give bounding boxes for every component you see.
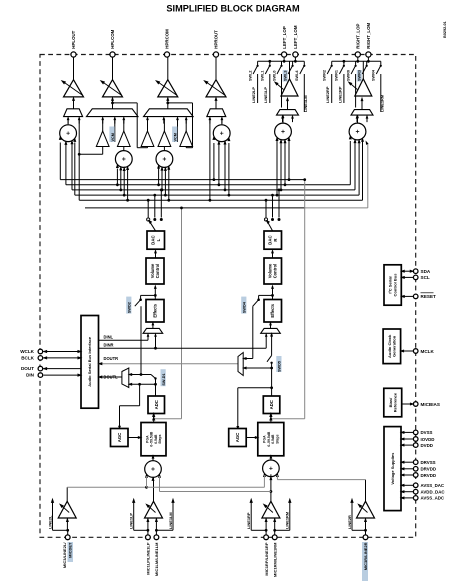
svg-text:Reference: Reference <box>393 392 398 412</box>
svg-text:RIGHT_LOM: RIGHT_LOM <box>366 23 371 49</box>
svg-text:SWR4: SWR4 <box>372 69 376 81</box>
arrow effects R to VC R <box>272 288 274 300</box>
mux under x73.1 <box>64 109 83 117</box>
mux under x216.3 <box>207 109 226 117</box>
AGC R <box>229 429 247 447</box>
record route A <box>67 486 146 488</box>
DOUTL mux <box>122 368 129 388</box>
arrow VC R to DAC R <box>272 252 274 258</box>
arrow AGC R to PGA R <box>246 437 258 439</box>
mixer LO-R <box>349 123 366 140</box>
svg-text:SDA: SDA <box>421 269 431 274</box>
PGA R <box>258 423 284 456</box>
svg-text:RIGHT_LOP: RIGHT_LOP <box>356 24 361 49</box>
svg-text:BCLK: BCLK <box>21 356 34 361</box>
svg-text:Effects: Effects <box>152 303 157 317</box>
svg-text:VCM: VCM <box>174 133 178 141</box>
svg-text:LINE1RP: LINE1RP <box>246 512 251 529</box>
svg-text:SWL0: SWL0 <box>272 70 276 81</box>
effects R <box>264 300 282 323</box>
label MIC3R pin <box>362 542 368 581</box>
svg-text:DOUTR: DOUTR <box>104 356 119 361</box>
VCM net 2 <box>177 119 179 142</box>
pin HPLCOM <box>110 52 115 57</box>
buffer tri1 feeder <box>102 147 104 155</box>
svg-text:SW-D1: SW-D1 <box>162 373 166 385</box>
svg-text:DINL: DINL <box>104 335 114 340</box>
hp amp U-HPR-COM <box>158 80 178 97</box>
svg-text:WCLK: WCLK <box>20 349 34 354</box>
pin LEFT_LOP <box>282 52 287 57</box>
mux under effects L arrows <box>147 333 150 337</box>
right line-out amp <box>355 79 372 96</box>
record route C <box>277 479 365 481</box>
svg-text:DVSS: DVSS <box>421 430 433 435</box>
pin IOVDD <box>413 437 418 442</box>
input amp MIC3L <box>58 501 76 518</box>
mux under x168.3 <box>144 109 194 117</box>
left line-out mux <box>277 110 299 116</box>
switch SWR3 label <box>357 70 362 82</box>
volume control R <box>264 258 282 284</box>
svg-text:DVDD: DVDD <box>421 443 433 448</box>
mux under effects R <box>261 328 281 333</box>
record mixer L in arrows <box>145 473 148 478</box>
mixer L2 out <box>123 147 125 151</box>
svg-text:MICDET: MICDET <box>68 542 73 558</box>
I2C box <box>384 265 401 305</box>
svg-text:AVSS_DAC: AVSS_DAC <box>421 483 445 488</box>
svg-text:Generation: Generation <box>392 335 397 357</box>
svg-text:SWL1: SWL1 <box>261 70 265 81</box>
mixer R1 in arrows <box>212 135 215 140</box>
arrow VC L to DAC L <box>155 252 157 258</box>
svg-text:LINE1LM: LINE1LM <box>303 95 308 112</box>
svg-text:LINE2LP: LINE2LP <box>251 87 256 103</box>
mixer LO-R out <box>357 116 359 122</box>
svg-text:SWR3: SWR3 <box>358 70 362 81</box>
DAC R <box>264 231 282 249</box>
buffer tri x102.7 <box>96 131 109 147</box>
left line-out amp <box>281 79 298 96</box>
amp MIC1L out <box>153 477 155 501</box>
pin AVDD_DAC <box>413 489 418 494</box>
svg-text:B0292-01: B0292-01 <box>443 21 447 38</box>
svg-text:LINE2R: LINE2R <box>347 515 352 529</box>
mixer L1 out <box>67 119 69 125</box>
svg-text:MCLK: MCLK <box>421 349 435 354</box>
DOUTR mux inputs <box>243 358 253 360</box>
mux1 input arrows <box>67 118 69 124</box>
pin HPLOUT <box>71 52 76 57</box>
svg-text:MIC1RP/LINE1RP: MIC1RP/LINE1RP <box>264 542 269 575</box>
pin MIC1LP stub <box>146 535 151 540</box>
svg-text:RESET: RESET <box>421 294 437 299</box>
right line-out switch bank <box>332 60 381 62</box>
mixer LO-R in arrows <box>349 135 352 140</box>
DOUTL mux inputs <box>129 374 151 376</box>
svg-text:Control: Control <box>155 264 160 279</box>
AGC R feeder <box>238 387 272 389</box>
input amp MIC1R <box>262 501 280 518</box>
svg-text:SWL3: SWL3 <box>283 70 287 81</box>
svg-text:LEFT_LOM: LEFT_LOM <box>293 25 298 49</box>
mixer R1 out <box>221 119 223 125</box>
svg-text:ADC: ADC <box>269 400 274 409</box>
AGC L feeder <box>139 384 141 406</box>
buffer tri x164.4 <box>158 131 171 147</box>
mux2 input arrows <box>102 118 104 124</box>
svg-text:HPLCOM: HPLCOM <box>110 29 115 48</box>
long vertical left <box>181 208 183 419</box>
right bank input wires <box>331 74 333 103</box>
buffer tri x186.2 <box>180 131 193 147</box>
LINE1RP tap <box>251 529 266 531</box>
DOUTR mux <box>238 353 243 376</box>
svg-text:VCM: VCM <box>111 133 115 141</box>
svg-text:LINE2L: LINE2L <box>47 515 52 529</box>
pin MIC3L stub <box>65 535 70 540</box>
svg-text:LEFT_LOP: LEFT_LOP <box>282 26 287 49</box>
pin MICBIAS <box>413 402 418 407</box>
LINE1LP tap <box>134 529 148 531</box>
svg-text:AGC: AGC <box>235 433 240 443</box>
pin AVSS_ADC <box>413 496 418 501</box>
mixer R2 <box>156 151 173 168</box>
svg-text:L: L <box>156 238 161 241</box>
pin HPROUT <box>213 52 218 57</box>
pin MIC1LM stub <box>154 535 159 540</box>
svg-text:MICBIAS: MICBIAS <box>421 402 440 407</box>
record route B <box>160 491 271 493</box>
record mixer R in arrows <box>263 472 266 477</box>
svg-text:LINE1LM: LINE1LM <box>168 512 173 529</box>
mixer L2 <box>115 151 132 168</box>
pin BCLK <box>38 356 43 361</box>
svg-text:HPLOUT: HPLOUT <box>71 30 76 48</box>
pin RIGHT_LOM <box>366 52 371 57</box>
pin LEFT_LOM <box>293 52 298 57</box>
switch SWL3 label <box>283 70 288 82</box>
svg-text:DOUT: DOUT <box>21 366 34 371</box>
volume control L <box>146 258 164 284</box>
svg-text:DRVDD: DRVDD <box>421 473 437 478</box>
LINE2L tap <box>53 529 68 531</box>
SW-D1 switch <box>151 375 156 379</box>
pin RESET <box>413 294 418 299</box>
amp MIC3L out <box>66 487 68 501</box>
long vertical right <box>304 180 306 419</box>
SWD2 net down <box>140 306 142 374</box>
LINE2R tap <box>352 529 366 531</box>
input amp MIC3R <box>357 501 375 518</box>
switch SWD4 <box>259 294 273 296</box>
svg-text:LINE2RP: LINE2RP <box>325 86 330 103</box>
hp amp U-HPR-OUT <box>206 80 226 97</box>
mixer R2 in arrows <box>157 164 160 169</box>
buffer tri x123.8 <box>117 131 130 147</box>
mux under effects R arrows <box>265 333 268 337</box>
mux3 input arrows <box>147 118 149 124</box>
HPRCOM crossfeed wire <box>166 102 169 105</box>
svg-text:SWL4: SWL4 <box>295 70 299 81</box>
mixer R2 feeders <box>158 169 160 185</box>
mux4 input arrows <box>209 118 211 124</box>
switch SWD2 <box>141 294 156 296</box>
right line-out mux <box>351 110 373 116</box>
mux under effects L <box>143 328 163 333</box>
svg-text:Control Bus: Control Bus <box>392 273 397 297</box>
pin WCLK <box>38 349 43 354</box>
VCM net 1 <box>114 119 116 142</box>
LINE1RM tap <box>275 529 290 531</box>
ADC L <box>148 396 165 414</box>
svg-text:ADC: ADC <box>154 400 159 409</box>
ADC R out net <box>271 363 273 396</box>
DAC L output selector <box>147 218 150 221</box>
pin DRVDD <box>413 473 418 478</box>
svg-text:MIC1RM/LINE1RM: MIC1RM/LINE1RM <box>272 542 277 577</box>
mixer L2 feeders <box>116 169 118 185</box>
svg-text:AGC: AGC <box>117 433 122 443</box>
arrow AGC L to PGA L <box>128 437 141 439</box>
pin DOUT <box>38 366 43 371</box>
audio clock box <box>383 329 401 364</box>
svg-text:SWD2: SWD2 <box>128 302 132 313</box>
pin DVDD <box>413 443 418 448</box>
pin HPRCOM <box>164 52 169 57</box>
record mixer L out <box>152 456 154 461</box>
pin AVSS_DAC <box>413 483 418 488</box>
DAC R output selector <box>264 218 267 221</box>
switch SWD5 <box>271 335 273 356</box>
svg-text:AVSS_ADC: AVSS_ADC <box>421 496 445 501</box>
mixer L1 <box>60 125 77 142</box>
DAC L <box>147 231 165 249</box>
mux under x112.2 <box>86 109 138 117</box>
PGA L <box>141 423 166 456</box>
left line-out mux arrows <box>282 116 284 122</box>
left line-out switch bank <box>258 60 305 62</box>
svg-text:MIC3/LINE2L/: MIC3/LINE2L/ <box>62 542 67 568</box>
ADC R <box>263 396 280 414</box>
SWD4 net down <box>252 306 254 358</box>
svg-text:LINE1RM: LINE1RM <box>285 512 290 529</box>
svg-text:SWD4: SWD4 <box>243 301 247 313</box>
AGC L <box>111 429 129 447</box>
svg-text:SWR0: SWR0 <box>346 70 350 81</box>
svg-text:HPRCOM: HPRCOM <box>165 29 170 49</box>
svg-text:LINE1LP: LINE1LP <box>263 87 268 103</box>
mixer LO-L in arrows <box>276 136 279 141</box>
record mixer L <box>145 461 162 478</box>
svg-text:LINE1LP: LINE1LP <box>129 513 134 529</box>
svg-text:SWL2: SWL2 <box>248 70 252 81</box>
svg-text:Voltage Supplies: Voltage Supplies <box>390 452 395 485</box>
svg-text:IOVDD: IOVDD <box>421 437 435 442</box>
pin MIC1RM stub <box>272 535 277 540</box>
svg-text:SWD5: SWD5 <box>278 361 282 372</box>
amp MIC1R out <box>270 474 272 501</box>
chip boundary (dashed) <box>40 55 416 538</box>
mixer LO-L out <box>282 116 284 122</box>
input amp MIC1L <box>145 501 163 518</box>
pin SCL <box>413 275 418 280</box>
svg-text:SWR2: SWR2 <box>323 70 327 81</box>
arrow PGA R to ADC R <box>270 414 272 423</box>
HPLCOM crossfeed wire <box>111 102 114 105</box>
svg-text:Steps: Steps <box>275 434 279 443</box>
pin MIC1RP stub <box>264 535 269 540</box>
voltage supplies box <box>384 427 401 511</box>
DAC R selector feeders <box>265 200 267 217</box>
analog routing bus <box>60 179 304 181</box>
mixer LO-L feeders <box>276 141 278 196</box>
mixer L1 in arrows <box>59 135 62 140</box>
svg-text:MIC1LP/LINE1LP: MIC1LP/LINE1LP <box>146 542 151 575</box>
svg-text:LINE1RM: LINE1RM <box>379 95 384 112</box>
svg-text:Audio Serial Bus Interface: Audio Serial Bus Interface <box>87 336 92 387</box>
svg-text:SIMPLIFIED BLOCK DIAGRAM: SIMPLIFIED BLOCK DIAGRAM <box>166 3 300 13</box>
mixer L2 in arrows <box>116 163 119 168</box>
bus line bottom <box>85 207 305 209</box>
mixer LO-L <box>275 123 292 140</box>
mixer R1 feeders <box>209 119 211 201</box>
hp amp U-HPL-OUT <box>64 80 84 97</box>
LINE1LM tap <box>156 529 173 531</box>
pin DIN <box>38 373 43 378</box>
mixer R1 <box>213 125 230 142</box>
pin DRVSS <box>413 460 418 465</box>
record mixer R out <box>270 456 272 460</box>
buffer tri x147.5 <box>141 131 154 147</box>
svg-text:AVDD_DAC: AVDD_DAC <box>421 490 446 495</box>
svg-text:DRVSS: DRVSS <box>421 460 436 465</box>
svg-text:DRVDD: DRVDD <box>421 467 437 472</box>
DAC L selector feeders <box>147 200 149 217</box>
svg-text:HPROUT: HPROUT <box>214 30 219 49</box>
pin SDA <box>413 269 418 274</box>
record mixer R <box>263 460 280 477</box>
svg-text:Effects: Effects <box>270 303 275 317</box>
pin RIGHT_LOP <box>355 52 360 57</box>
bias reference box <box>384 388 402 417</box>
svg-text:Steps: Steps <box>158 434 162 443</box>
pin DVSS <box>413 430 418 435</box>
svg-text:Control: Control <box>273 264 278 279</box>
arrow PGA L to ADC L <box>153 414 155 423</box>
amp MIC3R out <box>365 480 367 502</box>
hp amp U-HPL-COM <box>103 80 123 97</box>
svg-text:MIC1LM/LINE1LM: MIC1LM/LINE1LM <box>154 542 159 576</box>
audio serial bus interface <box>81 316 99 409</box>
effects L <box>146 300 164 323</box>
arrow effects L to VC L <box>154 288 156 300</box>
left bank input wires <box>257 74 259 103</box>
pin DRVDD <box>413 467 418 472</box>
ADC L out net <box>155 379 157 397</box>
pin MCLK <box>413 349 418 354</box>
svg-text:LINE1RP: LINE1RP <box>337 86 342 103</box>
svg-text:MIC3R/LINE2R: MIC3R/LINE2R <box>363 542 368 570</box>
right line-out mux arrows <box>356 116 358 122</box>
svg-text:SCL: SCL <box>421 275 430 280</box>
svg-text:DIN: DIN <box>26 373 35 378</box>
mixer R2 out <box>163 147 165 151</box>
svg-text:SWR1: SWR1 <box>335 70 339 81</box>
svg-text:DINR: DINR <box>104 342 114 347</box>
pin MIC3R stub <box>363 535 368 540</box>
